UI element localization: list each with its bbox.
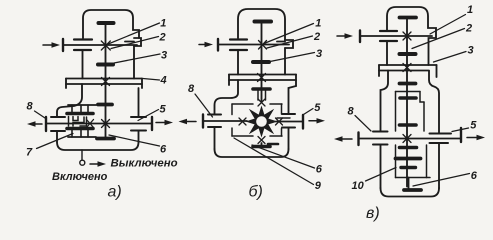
right bearing caps A — [131, 117, 146, 131]
right bearing caps B — [282, 114, 295, 128]
leader 6 A — [109, 135, 160, 146]
leader 8 B — [195, 94, 213, 117]
svg-text:8: 8 — [348, 106, 355, 118]
output shaft B — [203, 115, 303, 129]
vertical shaft V — [406, 19, 408, 187]
cage around star B — [232, 104, 282, 136]
svg-text:8: 8 — [188, 83, 195, 95]
svg-text:5: 5 — [314, 102, 321, 114]
svg-text:3: 3 — [161, 50, 167, 62]
leader 10 V — [366, 168, 397, 182]
svg-text:4: 4 — [160, 75, 167, 87]
mesh X top V — [403, 32, 411, 40]
leader 1 A — [107, 23, 160, 45]
leader 8 V — [355, 116, 371, 132]
leader 5 V — [452, 128, 469, 132]
output arrow right A — [156, 120, 173, 125]
lower bevel gear cap A — [98, 103, 112, 107]
indicator arrow A — [90, 161, 106, 166]
leader 2 A — [111, 37, 159, 49]
mesh X top B — [259, 41, 267, 50]
housing A left upper bearing — [74, 40, 92, 51]
gear on frame axis upper V — [400, 96, 416, 100]
bottom T gear B — [253, 143, 278, 147]
mesh X ledge B — [258, 74, 266, 82]
housing A right bearing bump — [125, 38, 141, 46]
inner frame 10 V — [396, 92, 431, 178]
vertical shaft B — [261, 22, 263, 101]
shifter indicator A — [80, 150, 85, 165]
housing A bottom — [57, 142, 139, 150]
mesh X ledge V — [403, 64, 411, 72]
housing V lower left wall — [381, 71, 389, 189]
svg-text:2: 2 — [465, 23, 472, 35]
svg-text:5: 5 — [160, 104, 167, 116]
gear 3 on vertical shaft B — [253, 60, 269, 64]
housing A lower left wall — [57, 84, 82, 142]
svg-text:10: 10 — [352, 180, 365, 192]
housing V mid ledge — [379, 65, 437, 77]
mesh X clutch A — [87, 120, 94, 128]
housing V lower right wall — [429, 71, 439, 188]
input shaft A — [63, 39, 137, 51]
leader 3 A — [114, 54, 160, 63]
bevel gear 1 top cap A — [99, 21, 114, 25]
clutch 7 assembly A — [67, 105, 96, 137]
leader 7 A — [37, 134, 74, 149]
leader 3 B — [270, 53, 315, 62]
input arrow B — [199, 42, 213, 47]
housing B top section — [238, 9, 285, 40]
differential star B — [248, 108, 276, 136]
small gear V — [401, 166, 416, 169]
bevel gear 1 top cap V — [400, 16, 417, 20]
mesh X ledge A — [102, 78, 110, 86]
bottom T gear V — [404, 178, 421, 191]
left bearing caps B — [208, 115, 221, 128]
leader 5 A — [138, 110, 159, 121]
vertical shaft A — [105, 24, 107, 137]
svg-text:1: 1 — [467, 4, 473, 16]
housing B bottom — [215, 149, 289, 157]
svg-text:5: 5 — [470, 120, 477, 132]
svg-text:7: 7 — [26, 147, 33, 159]
housing B right bearing bump — [277, 40, 293, 48]
svg-text:а): а) — [108, 184, 122, 201]
mesh X bottom A — [102, 120, 110, 128]
output arrow left B — [179, 119, 197, 124]
leader 8 A — [35, 111, 47, 119]
gear below ledge V — [400, 82, 416, 86]
svg-text:9: 9 — [315, 180, 322, 192]
svg-text:Включено: Включено — [52, 171, 108, 183]
svg-text:2: 2 — [159, 32, 166, 44]
right bearing caps V — [430, 134, 452, 144]
svg-text:6: 6 — [160, 144, 167, 156]
svg-text:3: 3 — [316, 48, 322, 60]
leader 6 B — [252, 145, 315, 168]
svg-text:2: 2 — [313, 31, 320, 43]
housing V top section — [387, 7, 436, 65]
input arrow A — [43, 42, 60, 47]
svg-text:1: 1 — [160, 18, 166, 30]
svg-text:1: 1 — [315, 18, 321, 30]
housing V left upper wall — [386, 41, 388, 65]
input shaft V — [360, 31, 432, 43]
housing A lower right wall — [138, 88, 140, 142]
leader 5 B — [304, 109, 314, 115]
input shaft B — [218, 39, 289, 51]
input arrow V — [337, 33, 353, 38]
svg-text:8: 8 — [27, 101, 34, 113]
svg-text:6: 6 — [316, 164, 323, 176]
housing A top section — [83, 10, 139, 38]
bevel pinion hub B — [253, 89, 270, 100]
leader 9 B — [234, 138, 314, 185]
mesh X star bottom B — [258, 137, 265, 144]
bevel gear 1 top cap B — [255, 20, 272, 24]
mesh X top A — [101, 41, 110, 50]
housing B lower left wall — [215, 80, 239, 149]
gear 3 on vertical shaft A — [98, 63, 113, 67]
leader 1 B — [264, 24, 314, 44]
housing B mid ledge — [229, 75, 296, 87]
bottom inverted T gear A — [97, 137, 114, 141]
output arrow left A — [27, 121, 42, 126]
leader 2 B — [267, 36, 313, 48]
gear below output V — [400, 146, 417, 150]
svg-text:6: 6 — [471, 170, 478, 182]
gear 2 on vertical shaft V — [400, 52, 416, 56]
wide gear V — [396, 157, 421, 161]
housing V bottom — [381, 188, 440, 197]
output arrow right V — [467, 135, 485, 140]
housing A mid ledge — [66, 79, 142, 89]
leader 4 A — [143, 79, 160, 81]
leader 1 V — [430, 15, 466, 35]
svg-text:б): б) — [249, 184, 263, 201]
housing A upper walls — [83, 46, 135, 79]
output arrow right B — [309, 118, 325, 123]
left bearing caps V — [373, 132, 388, 145]
housing V left upper bearing — [380, 31, 397, 41]
mesh X output V — [403, 135, 411, 143]
mesh X star right B — [276, 118, 283, 125]
mesh X star left B — [239, 118, 246, 125]
left bearing caps A — [51, 117, 65, 131]
housing B lower right wall — [289, 86, 297, 149]
leader 6 V — [413, 174, 470, 187]
output shaft A — [46, 117, 152, 131]
output shaft V — [359, 128, 462, 145]
svg-text:в): в) — [366, 205, 380, 222]
mesh X star top B — [258, 99, 265, 106]
leader 2 V — [412, 29, 465, 49]
output arrow left V — [334, 136, 352, 141]
svg-text:3: 3 — [468, 45, 474, 57]
leader 3 V — [434, 52, 467, 63]
gear on frame axis small V — [400, 123, 417, 127]
housing B left upper bearing — [230, 40, 247, 51]
svg-text:Выключено: Выключено — [111, 158, 178, 170]
housing B upper walls — [238, 48, 285, 75]
